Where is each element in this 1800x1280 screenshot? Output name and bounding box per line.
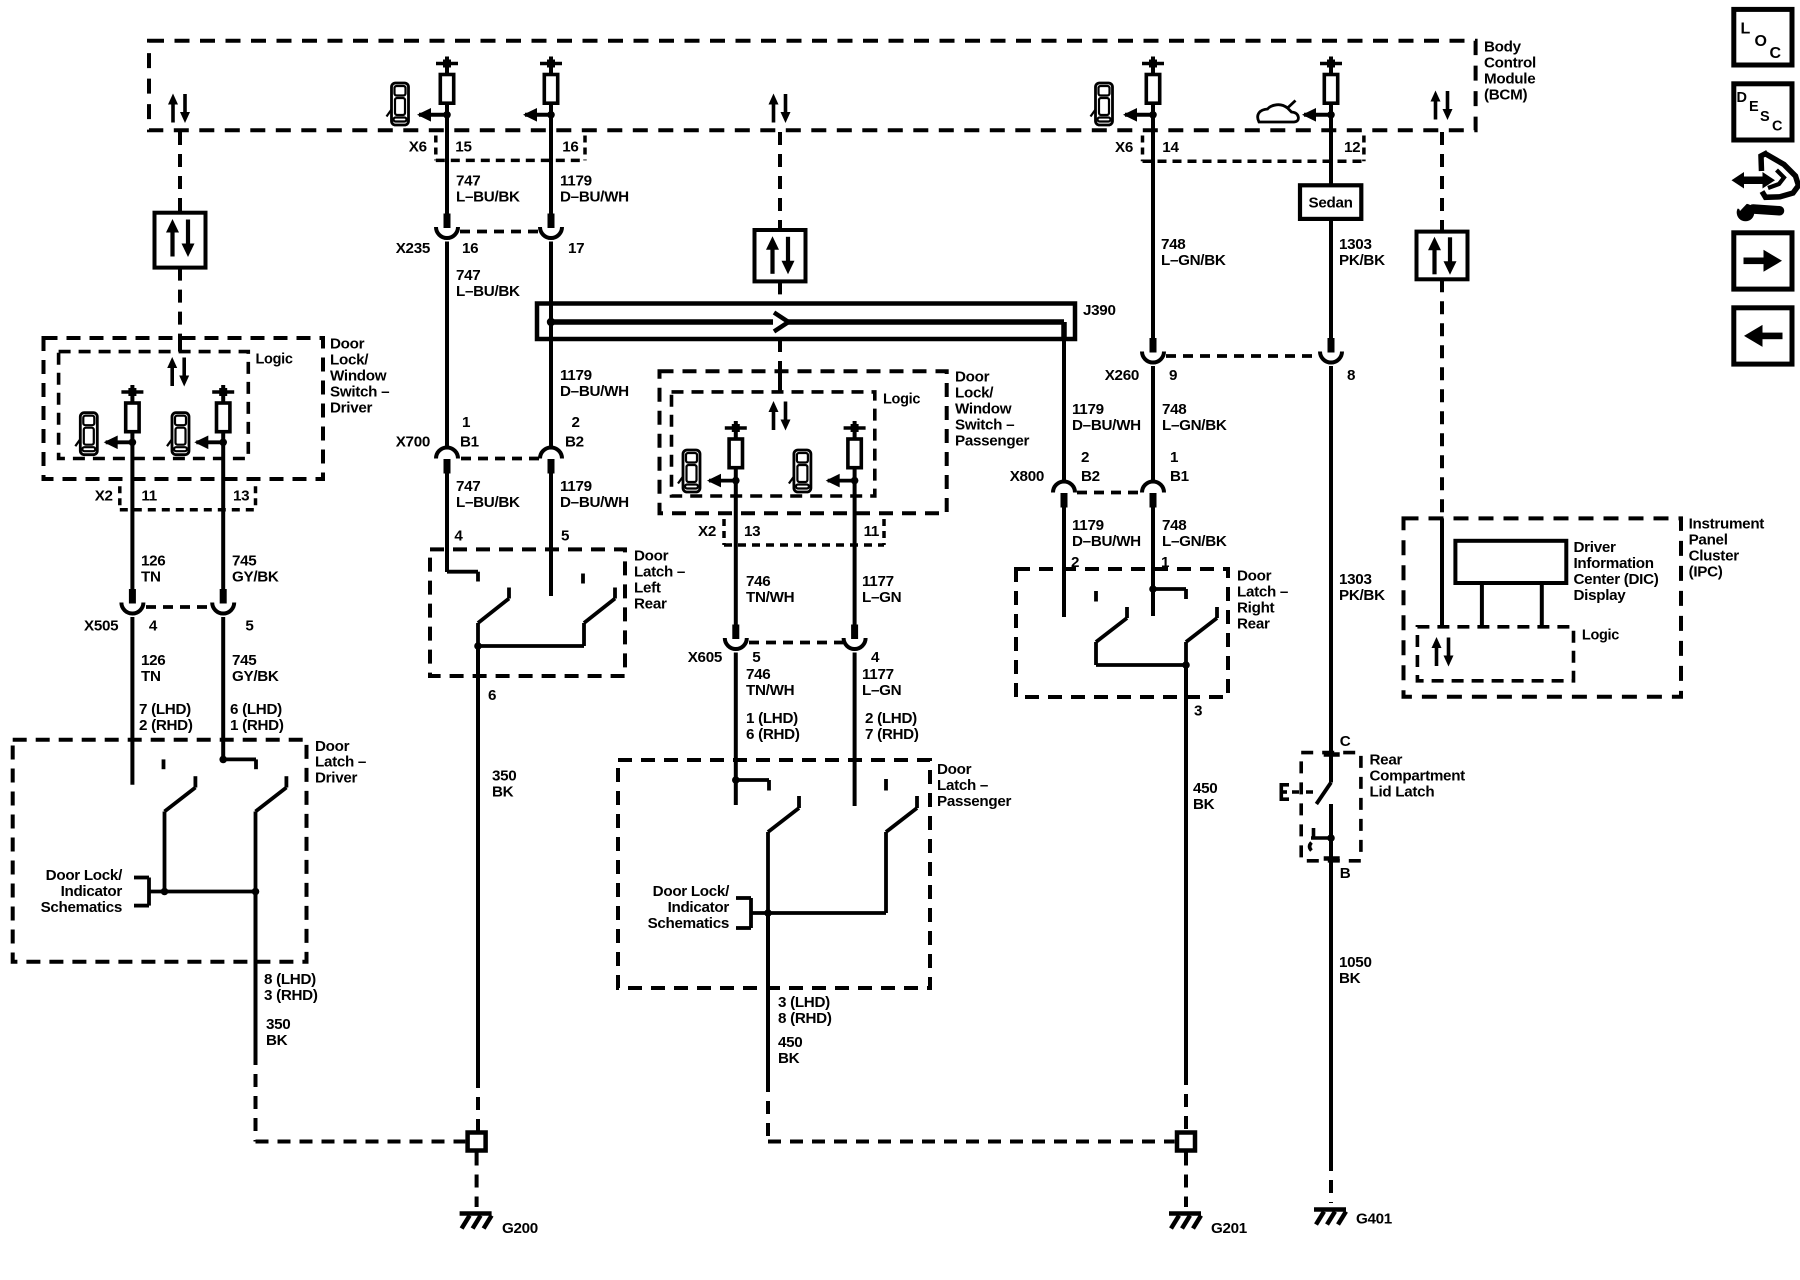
wire from IPC edge to DIC logic (1440, 518, 1444, 626)
passenger switch car icon (unlock) (789, 450, 811, 492)
passenger latch pin 1 (LHD) 6 (RHD) (746, 710, 800, 743)
svg-text:G401: G401 (1356, 1211, 1393, 1228)
Door Latch Left Rear: switch arm 2 (584, 588, 615, 647)
connector X605 pin 4 half (844, 625, 866, 650)
dashed ground run driver 350 BK to G200 splice (256, 1052, 466, 1142)
svg-text:Lock/: Lock/ (955, 385, 994, 402)
svg-text:126: 126 (141, 553, 165, 570)
X235 dashed mate line (460, 230, 538, 234)
svg-text:BK: BK (266, 1032, 288, 1049)
svg-text:GY/BK: GY/BK (232, 569, 279, 586)
driver switch Logic label (256, 352, 293, 368)
connector X2 strip (driver) (120, 486, 256, 509)
svg-text:3 (LHD): 3 (LHD) (778, 994, 830, 1011)
X2 pin 11 (driver) (141, 488, 157, 505)
svg-text:Lid Latch: Lid Latch (1370, 784, 1435, 801)
Door Lock/Window Switch Passenger outer dashed box (660, 371, 947, 513)
svg-text:11: 11 (864, 523, 880, 540)
passenger latch output pin 3 (LHD) 8 (RHD) (778, 994, 832, 1027)
svg-text:D–BU/WH: D–BU/WH (1072, 533, 1141, 550)
svg-text:C: C (1772, 119, 1783, 135)
svg-text:4: 4 (149, 618, 158, 635)
connector X505 pin 4 half (121, 589, 143, 614)
BCM output driver: actuator coil (436, 57, 458, 115)
svg-text:PK/BK: PK/BK (1339, 252, 1385, 269)
svg-text:Rear: Rear (1237, 616, 1270, 633)
svg-text:B2: B2 (1081, 468, 1100, 485)
wire label 748 L-GN/BK (below X800) (1162, 517, 1227, 550)
DIC display legs (1482, 583, 1542, 627)
svg-text:1 (LHD): 1 (LHD) (746, 710, 798, 727)
driver switch lock arrow to car (104, 436, 137, 450)
svg-text:X605: X605 (688, 649, 723, 666)
svg-text:L–GN: L–GN (862, 682, 901, 699)
connector X6 strip (left pair) (436, 136, 585, 161)
wire label 747 L-BU/BK (below X235) (456, 267, 520, 300)
svg-text:Driver: Driver (1574, 539, 1616, 556)
svg-text:Driver: Driver (315, 769, 357, 786)
svg-text:3: 3 (1194, 703, 1202, 720)
wire label 747 L-BU/BK (above X235) (456, 173, 520, 206)
BCM output passenger: car icon (1091, 83, 1113, 125)
Door Lock/Window Switch Passenger label (955, 369, 1030, 450)
svg-text:1179: 1179 (1072, 517, 1104, 534)
Door Lock/Indicator Schematics bracket (driver) (134, 878, 149, 906)
X6 pin 16 (562, 139, 578, 156)
svg-text:(IPC): (IPC) (1689, 564, 1723, 581)
connector X505 pin 5 half (212, 589, 234, 614)
driver switch lock actuator (121, 385, 143, 442)
wire label 1303 PK/BK (to lid latch) (1339, 571, 1385, 604)
wire 747 from X700 to Door Latch Left Rear (445, 473, 449, 572)
wire 350 BK from Door Latch Driver (254, 892, 258, 1053)
passenger switch lock arrow to car (707, 474, 740, 488)
wire 747 from BCM to X235 (445, 115, 449, 214)
svg-text:L–BU/BK: L–BU/BK (456, 189, 520, 206)
driver latch output pin 8 (LHD) 3 (RHD) (264, 971, 318, 1004)
lid latch terminal C (1340, 733, 1351, 750)
X6 label (right) (1115, 139, 1133, 156)
svg-text:Logic: Logic (1582, 628, 1619, 644)
passenger latch pin 2 (LHD) 7 (RHD) (865, 710, 919, 743)
svg-text:Latch –: Latch – (1237, 584, 1288, 601)
svg-text:L–GN: L–GN (862, 589, 901, 606)
svg-text:1179: 1179 (560, 367, 592, 384)
X2 pin 13 (driver) (233, 488, 249, 505)
svg-text:16: 16 (562, 139, 578, 156)
svg-text:350: 350 (266, 1016, 290, 1033)
Door Latch Left Rear: tap on wire 747 (447, 572, 478, 582)
svg-text:Door: Door (937, 761, 972, 778)
svg-text:Logic: Logic (883, 392, 920, 408)
svg-text:Left: Left (634, 580, 661, 597)
svg-text:Latch –: Latch – (937, 777, 988, 794)
X2 label (passenger) (698, 523, 716, 540)
connector X605 pin 5 half (725, 625, 747, 650)
Rear Compartment Lid Latch label (1370, 752, 1466, 801)
wire label 1179 D-BU/WH (below X700) (560, 478, 629, 511)
svg-text:Cluster: Cluster (1689, 548, 1740, 565)
Door Latch Passenger: tap on wire 746 (732, 776, 769, 790)
svg-text:15: 15 (455, 139, 472, 156)
G200 splice square (468, 1133, 486, 1151)
svg-text:4: 4 (871, 649, 880, 666)
wire label 126 TN (above X505) (141, 553, 165, 586)
lid latch terminal tick C (1324, 752, 1340, 757)
svg-text:L: L (1741, 21, 1751, 38)
wire label 1050 BK (1339, 954, 1372, 987)
latch pin 5 (561, 528, 570, 545)
lid latch pawl symbol (1310, 828, 1335, 851)
svg-text:9: 9 (1169, 367, 1177, 384)
wire label 746 TN/WH (below X605) (746, 666, 794, 699)
legend left-arrow box (1734, 308, 1792, 364)
BCM driver-lock logic arrows (168, 94, 190, 124)
svg-text:B1: B1 (460, 434, 480, 451)
Door Latch Right Rear: output bus (1096, 661, 1190, 669)
J390 label (1083, 302, 1116, 319)
BCM IPC logic arrows (1431, 91, 1453, 121)
X235 label (396, 240, 431, 257)
svg-text:450: 450 (778, 1034, 802, 1051)
wire 745 from X505 to Door Latch Driver (221, 617, 225, 759)
wire 747 from X235 to X700 (445, 242, 449, 448)
svg-text:748: 748 (1162, 517, 1186, 534)
G201 splice square (1177, 1133, 1195, 1151)
wire label 350 BK (driver) (266, 1016, 290, 1049)
dashed net from BCM to IPC (1440, 132, 1444, 518)
Door Latch Passenger: switch arm 2 (886, 796, 917, 913)
Door Latch Driver label (315, 738, 366, 786)
svg-text:1050: 1050 (1339, 954, 1372, 971)
svg-text:X6: X6 (409, 139, 427, 156)
svg-text:C: C (1770, 45, 1782, 62)
svg-text:L–BU/BK: L–BU/BK (456, 283, 520, 300)
BCM output trunk: actuator coil (1320, 57, 1342, 115)
svg-text:747: 747 (456, 478, 480, 495)
passenger switch car icon (lock) (678, 450, 700, 492)
X505 label (84, 618, 119, 635)
BCM output passenger: actuator coil (1142, 57, 1164, 115)
X505 pin number 5 (245, 618, 254, 635)
X260 pin number 8 (1347, 367, 1355, 384)
svg-text:D–BU/WH: D–BU/WH (560, 494, 629, 511)
svg-text:2 (LHD): 2 (LHD) (865, 710, 917, 727)
svg-text:745: 745 (232, 553, 257, 570)
svg-text:1177: 1177 (862, 573, 894, 590)
ground G201 symbol (1169, 1214, 1201, 1229)
svg-text:746: 746 (746, 666, 770, 683)
svg-text:TN/WH: TN/WH (746, 682, 794, 699)
lid latch terminal tick B (1324, 856, 1340, 861)
Driver Information Center display rectangle (1455, 541, 1566, 583)
driver switch Logic dashed box (59, 352, 249, 459)
DIC display label (1574, 539, 1659, 604)
svg-text:Driver: Driver (330, 400, 372, 417)
svg-text:Door: Door (955, 369, 990, 386)
wire label 126 TN (below X505) (141, 652, 165, 685)
connector X235 pin 16 half (436, 214, 458, 239)
svg-text:Control: Control (1484, 55, 1536, 72)
BCM label (1484, 39, 1536, 104)
svg-text:13: 13 (233, 488, 249, 505)
svg-text:D–BU/WH: D–BU/WH (560, 383, 629, 400)
X700 pin label 1 B1 (460, 414, 480, 451)
svg-text:BK: BK (1193, 796, 1215, 813)
ground G401 label (1356, 1211, 1393, 1228)
middle column boxed up/down arrows (755, 230, 806, 281)
connector X700 pin B2 half (540, 448, 562, 474)
X260 dashed mate line (1166, 354, 1318, 358)
wire label 350 BK (left rear) (492, 768, 516, 801)
wire 748 from X800 to Door Latch Right Rear (1151, 507, 1155, 616)
svg-text:TN: TN (141, 668, 161, 685)
Door Latch Left Rear label (634, 548, 685, 613)
svg-text:8 (RHD): 8 (RHD) (778, 1010, 832, 1027)
svg-text:1179: 1179 (1072, 401, 1104, 418)
X235 pin number 17 (568, 240, 584, 257)
svg-text:Schematics: Schematics (648, 915, 729, 932)
Door Latch Left Rear dashed box (430, 549, 625, 676)
wire 1179 from X700 to Door Latch Left Rear (549, 473, 553, 596)
connector X800 pin B2 half (1053, 482, 1075, 508)
X700 dashed mate line (461, 457, 540, 461)
BCM output driver unlock: arrow (523, 108, 555, 122)
svg-text:BK: BK (778, 1050, 800, 1067)
X800 pin label 2 B2 (1081, 449, 1100, 485)
wire label 450 BK (right rear) (1193, 780, 1217, 813)
Door Latch Driver: bus to indicator reference (149, 888, 259, 896)
X700 label (396, 434, 430, 451)
svg-text:7 (RHD): 7 (RHD) (865, 726, 919, 743)
X2 pin 13 (passenger) (744, 523, 760, 540)
svg-text:2 (RHD): 2 (RHD) (139, 717, 193, 734)
Door Latch Passenger: fixed contact dash (884, 779, 888, 791)
passenger switch Logic dashed box (672, 392, 875, 496)
svg-text:G200: G200 (502, 1220, 538, 1237)
X6 pin 12 (1344, 139, 1360, 156)
svg-text:D: D (1737, 90, 1747, 106)
wire label 450 BK (passenger) (778, 1034, 802, 1067)
svg-text:Center (DIC): Center (DIC) (1574, 571, 1659, 588)
wire 350 BK from Door Latch Left Rear (pin 6) (478, 646, 496, 1075)
splice pack J390 box (537, 304, 1075, 340)
Door Latch Right Rear dashed box (1016, 569, 1228, 697)
svg-text:L–GN/BK: L–GN/BK (1161, 252, 1226, 269)
svg-text:350: 350 (492, 768, 516, 785)
X505 dashed mate line (146, 605, 212, 609)
svg-text:L–GN/BK: L–GN/BK (1162, 417, 1227, 434)
svg-text:Indicator: Indicator (668, 899, 730, 916)
driver column boxed up/down arrows (155, 213, 206, 268)
wire 126 from X505 to Door Latch Driver (130, 617, 134, 785)
wire from passenger switch pin 13 through X2 (734, 481, 738, 627)
svg-text:X800: X800 (1010, 468, 1044, 485)
wire from driver switch pin 13 through X2 (221, 442, 225, 590)
svg-text:Switch –: Switch – (330, 384, 389, 401)
svg-text:Door: Door (330, 336, 365, 353)
driver latch pin 7 (LHD) 2 (RHD) (139, 701, 193, 734)
BCM output driver: car icon (387, 83, 409, 125)
IPC Logic label (1582, 628, 1619, 644)
connector X235 pin 17 half (540, 214, 562, 239)
wire from driver switch pin 11 through X2 (130, 442, 134, 590)
Door Latch Right Rear label (1237, 568, 1288, 633)
svg-text:17: 17 (568, 240, 584, 257)
J390 internal bus bar with direction chevron (547, 313, 1064, 342)
svg-text:16: 16 (462, 240, 478, 257)
svg-text:G201: G201 (1211, 1220, 1248, 1237)
svg-text:747: 747 (456, 267, 480, 284)
Door Latch Right Rear: switch arm 2 (1186, 607, 1217, 665)
Door Latch Driver: fixed contact dash (162, 759, 166, 769)
svg-text:6 (LHD): 6 (LHD) (230, 701, 282, 718)
ground G401 symbol (1314, 1210, 1346, 1225)
wire B side inside lid latch (1329, 804, 1333, 859)
Door Lock/Window Switch Driver label (330, 336, 389, 417)
svg-text:4: 4 (454, 528, 463, 545)
svg-text:14: 14 (1162, 139, 1179, 156)
wire 1179 from X235 through J390 to X700 (549, 242, 553, 448)
ground G200 symbol (460, 1214, 492, 1229)
connector X700 pin B1 half (436, 448, 458, 474)
X260 label (1105, 367, 1139, 384)
dashed run below G200 splice (475, 1153, 479, 1208)
X800 dashed mate line (1077, 491, 1140, 495)
Door Lock/Indicator Schematics label (passenger) (648, 883, 730, 932)
X700 pin label 2 B2 (565, 414, 584, 451)
Door Latch Right Rear: fixed contact dash (1094, 591, 1098, 602)
legend right-arrow box (1734, 233, 1792, 289)
X6 pin 14 (1162, 139, 1179, 156)
svg-text:450: 450 (1193, 780, 1217, 797)
BCM output trunk: arrow to trunk icon (1302, 108, 1335, 122)
svg-text:745: 745 (232, 652, 257, 669)
X605 label (688, 649, 723, 666)
Door Latch Driver: switch arm 2 (256, 776, 287, 891)
wire label 1303 PK/BK (above X260) (1339, 236, 1385, 269)
X800 pin label 1 B1 (1170, 449, 1190, 485)
svg-text:1179: 1179 (560, 173, 592, 190)
svg-text:13: 13 (744, 523, 760, 540)
Sedan option tag box (1300, 185, 1361, 219)
connector X260 pin 8 half (1320, 338, 1342, 363)
wire label 1179 D-BU/WH (below X800) (1072, 517, 1141, 550)
wire label 748 L-GN/BK (X260 to X800) (1162, 401, 1227, 434)
svg-text:8: 8 (1347, 367, 1355, 384)
lid latch terminal E with dashed leader (1280, 783, 1314, 801)
svg-text:8 (LHD): 8 (LHD) (264, 971, 316, 988)
BCM output passenger: arrow to car (1123, 108, 1157, 122)
wire label 745 GY/BK (below X505) (232, 652, 279, 685)
svg-text:Compartment: Compartment (1370, 768, 1466, 785)
Door Latch Left Rear: output bus (474, 642, 584, 650)
dashed net from BCM to J390 and passenger switch (778, 132, 782, 392)
Door Latch Passenger dashed box (618, 760, 930, 988)
svg-text:D–BU/WH: D–BU/WH (1072, 417, 1141, 434)
legend service icon (arrow, panel, wrench) (1732, 153, 1799, 222)
Door Lock/Indicator Schematics label (driver) (41, 867, 123, 916)
dashed ground run to G200 (476, 1075, 480, 1131)
svg-text:Latch –: Latch – (315, 754, 366, 771)
driver switch car icon (lock) (75, 413, 97, 455)
svg-text:1: 1 (462, 414, 471, 431)
svg-text:Door Lock/: Door Lock/ (46, 867, 123, 884)
passenger switch lock actuator (725, 421, 747, 481)
driver switch unlock actuator (212, 385, 234, 442)
ground G200 label (502, 1220, 538, 1237)
svg-text:Sedan: Sedan (1309, 195, 1353, 212)
X6 label (left) (409, 139, 427, 156)
svg-text:5: 5 (245, 618, 254, 635)
wire 450 BK from Door Latch Right Rear (pin 3) (1186, 665, 1202, 1072)
connector X6 strip (right pair) (1143, 136, 1364, 162)
svg-text:7 (LHD): 7 (LHD) (139, 701, 191, 718)
Door Latch Passenger: bus to indicator reference (751, 909, 886, 917)
dashed ground run to G401 (1329, 1158, 1333, 1203)
passenger switch Logic label (883, 392, 920, 408)
wire 748 from X260 to X800 (1151, 366, 1155, 483)
wire 1177 from X605 to Door Latch Passenger (853, 653, 857, 807)
Door Latch Right Rear: tap on wire 748 (1149, 585, 1186, 599)
svg-text:Lock/: Lock/ (330, 352, 369, 369)
svg-text:1303: 1303 (1339, 236, 1372, 253)
svg-text:Right: Right (1237, 600, 1275, 617)
wire label 1179 D-BU/WH (below J390) (560, 367, 629, 400)
IPC Logic dashed box (1417, 627, 1573, 681)
wire label 1177 L-GN (above X605) (862, 573, 901, 606)
Instrument Panel Cluster dashed box (1404, 518, 1682, 696)
svg-text:748: 748 (1161, 236, 1185, 253)
wire from passenger switch pin 11 through X2 (853, 481, 857, 627)
wire 1303 from X260 to Rear Compartment Lid Latch (1329, 366, 1333, 755)
svg-text:746: 746 (746, 573, 770, 590)
svg-text:Switch –: Switch – (955, 417, 1014, 434)
legend DESC box (1734, 84, 1792, 140)
svg-text:Passenger: Passenger (955, 433, 1030, 450)
wire 1179 from X800 to Door Latch Right Rear (1062, 507, 1066, 617)
wire 1179 from BCM to X235 (549, 115, 553, 214)
svg-text:Door: Door (634, 548, 669, 565)
svg-text:C: C (1340, 733, 1351, 750)
svg-text:Door: Door (1237, 568, 1272, 585)
svg-text:Rear: Rear (634, 596, 667, 613)
passenger switch up/down arrows (769, 401, 791, 431)
dashed ground run right rear to G201 splice (1184, 1072, 1188, 1131)
connector X800 pin B1 half (1142, 482, 1164, 508)
right rear latch pin 1 (1161, 554, 1170, 571)
wire 1303 from BCM through X6 to Sedan tag (1329, 115, 1333, 186)
Instrument Panel Cluster label (1689, 516, 1765, 581)
dashed net from BCM to driver window switch (178, 132, 182, 352)
X6 pin 15 (455, 139, 472, 156)
svg-text:BK: BK (1339, 970, 1361, 987)
wire label 1179 D-BU/WH (above X235) (560, 173, 629, 206)
svg-text:Information: Information (1574, 555, 1654, 572)
svg-text:X260: X260 (1105, 367, 1139, 384)
BCM output driver unlock: actuator coil (540, 57, 562, 115)
driver switch up/down arrows (167, 357, 189, 387)
wire 450 BK from Door Latch Passenger (766, 913, 770, 1079)
svg-text:Body: Body (1484, 39, 1522, 56)
dashed ground run passenger 450 BK to G201 splice (768, 1079, 1175, 1142)
svg-text:Panel: Panel (1689, 532, 1728, 549)
wire label 745 GY/BK (above X505) (232, 553, 279, 586)
Door Latch Driver: switch arm 1 (165, 776, 196, 891)
svg-text:BK: BK (492, 784, 514, 801)
svg-text:L–GN/BK: L–GN/BK (1162, 533, 1227, 550)
passenger switch unlock actuator (844, 421, 866, 481)
